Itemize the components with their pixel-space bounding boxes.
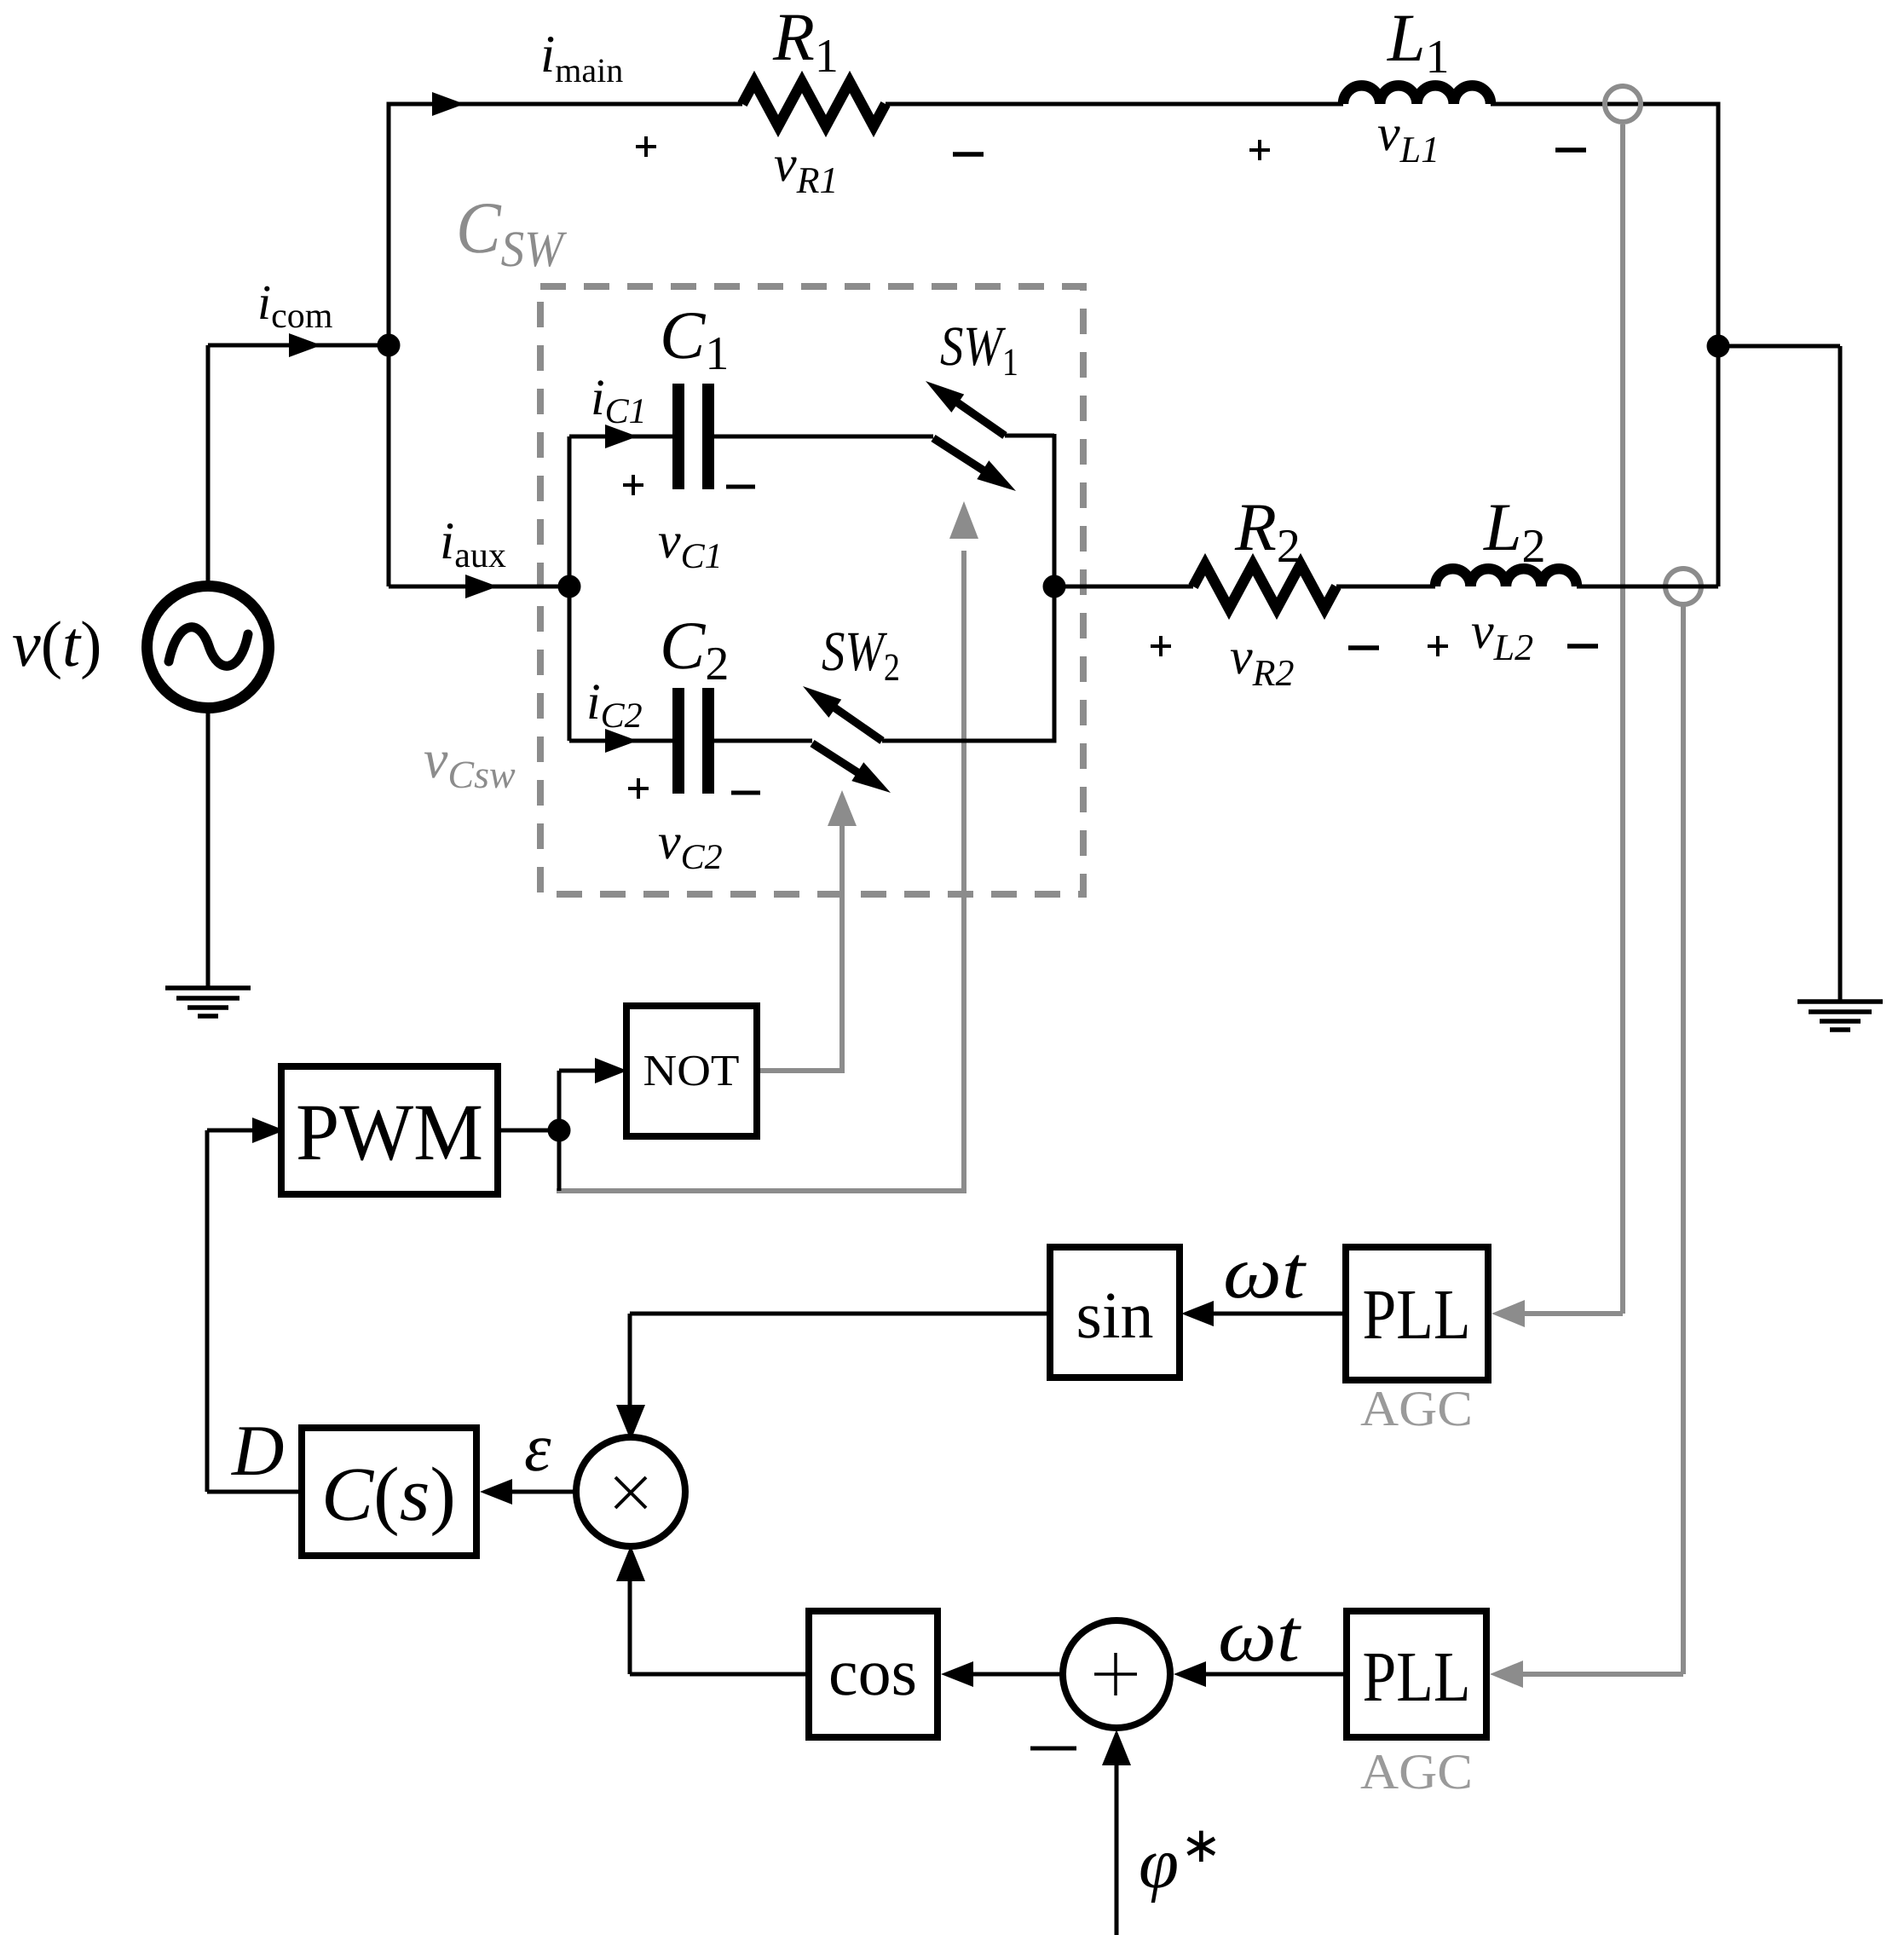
grey arrowhead into PLL1	[1491, 1300, 1525, 1327]
arrow i_main	[432, 92, 464, 116]
inductor L2	[1435, 569, 1577, 586]
arrow into PWM	[207, 1118, 285, 1143]
svg-text:PWM: PWM	[296, 1087, 483, 1177]
svg-text:PLL: PLL	[1363, 1638, 1471, 1717]
arrow PLL1 to sin	[1181, 1301, 1346, 1326]
switch SW1 blade	[933, 438, 1016, 491]
label v_R2	[1230, 628, 1295, 694]
wire top horizontal seg3	[1491, 102, 1718, 107]
wire far right vertical	[1838, 346, 1843, 1002]
arrow into multiplier top	[616, 1405, 645, 1441]
dashed box Csw	[540, 286, 1083, 894]
svg-text:AGC: AGC	[1360, 1380, 1473, 1436]
svg-text:AGC: AGC	[1360, 1743, 1473, 1799]
arrow into NOT	[595, 1058, 627, 1083]
label D	[231, 1411, 284, 1491]
wire source top	[206, 345, 211, 587]
wire SW2 right	[882, 739, 1054, 743]
wire i_com	[208, 344, 390, 348]
label AGC 2	[1360, 1743, 1473, 1799]
label C_SW	[456, 187, 568, 277]
label - C1	[726, 485, 755, 489]
wire C1 right	[714, 435, 933, 439]
label + vL2	[1428, 636, 1448, 656]
svg-text:cos: cos	[828, 1635, 917, 1709]
wire SW1 right	[1005, 434, 1054, 438]
grey arrowhead SW1 control	[949, 501, 978, 539]
label PLL2	[1363, 1638, 1471, 1717]
wire top-left vertical	[387, 102, 391, 587]
label AGC 1	[1360, 1380, 1473, 1436]
label L1	[1387, 1, 1450, 84]
label NOT	[643, 1047, 740, 1095]
label - vR1	[953, 152, 984, 157]
wire top horizontal seg1	[387, 102, 743, 107]
label + C2	[628, 778, 649, 799]
svg-text:ωt: ωt	[1218, 1595, 1302, 1678]
label + vR1	[636, 136, 656, 157]
block cos	[809, 1611, 938, 1737]
grey probe circle vL2	[1665, 569, 1701, 604]
wire C-branch left vertical	[568, 436, 572, 741]
grey probe circle vL1	[1605, 86, 1641, 122]
arrow phi* into summer	[1102, 1730, 1131, 1935]
arrow i_com	[289, 333, 321, 357]
wire cos output	[630, 1575, 809, 1674]
node dot aux right	[1043, 575, 1065, 598]
label - C2	[731, 791, 760, 795]
wire PWM down	[557, 1130, 562, 1191]
block PWM	[281, 1066, 498, 1194]
block C(s)	[302, 1428, 476, 1556]
svg-text:v(t): v(t)	[12, 609, 101, 680]
wire L2 to corner	[1577, 585, 1718, 589]
svg-text:ωt: ωt	[1223, 1232, 1307, 1314]
block PLL1	[1346, 1247, 1488, 1380]
arrow summer to cos	[941, 1661, 1063, 1687]
label + vR2	[1151, 636, 1171, 656]
label L2	[1483, 490, 1546, 573]
wire D vertical	[205, 1130, 210, 1492]
wire top horizontal seg2	[886, 102, 1343, 107]
block PLL2	[1347, 1611, 1486, 1737]
grey arrowhead SW2 control	[828, 790, 857, 826]
node dot right top	[1707, 335, 1729, 357]
switch SW2 contact arrow	[803, 686, 882, 741]
label i_main	[540, 26, 623, 90]
wire C2 right	[714, 739, 812, 743]
arrow i_C1	[605, 425, 638, 448]
label epsilon	[524, 1411, 551, 1486]
wire D horizontal	[207, 1490, 302, 1494]
wire node to R2	[1054, 585, 1193, 589]
capacitor C2	[672, 688, 714, 794]
wire C2 left	[569, 739, 672, 743]
svg-text:sin: sin	[1076, 1278, 1153, 1352]
label - vL2	[1567, 644, 1598, 649]
wire C-branch right vertical	[1053, 434, 1057, 743]
label sin	[1076, 1278, 1153, 1352]
resistor R1	[742, 82, 886, 126]
summer plus	[1094, 1653, 1137, 1695]
wire C1 left	[569, 435, 672, 439]
label v_C1	[658, 512, 723, 576]
label C2	[660, 609, 729, 690]
label C1	[660, 298, 729, 380]
block sin	[1050, 1247, 1180, 1378]
label i_C1	[591, 369, 647, 431]
grey arrowhead into PLL2	[1490, 1661, 1523, 1688]
label R2	[1234, 490, 1301, 573]
wire source bottom	[206, 708, 211, 988]
svg-text:PLL: PLL	[1363, 1275, 1471, 1354]
label - vR2	[1348, 645, 1379, 650]
multiplier circle	[576, 1437, 685, 1546]
label v_C2	[658, 813, 723, 877]
label PWM	[296, 1087, 483, 1177]
node dot aux left	[558, 575, 580, 598]
svg-text:C(s): C(s)	[321, 1453, 456, 1537]
svg-text:ε: ε	[524, 1411, 551, 1486]
arrow i_aux	[465, 575, 498, 598]
wire top-right vertical	[1716, 102, 1721, 587]
label v_R1	[774, 136, 839, 201]
label wt 2	[1218, 1595, 1302, 1678]
svg-text:D: D	[231, 1411, 284, 1491]
node dot PWM output	[548, 1119, 570, 1141]
summer circle	[1063, 1620, 1170, 1728]
svg-text:NOT: NOT	[643, 1047, 740, 1095]
label R1	[772, 0, 839, 83]
wire PWM output	[498, 1129, 559, 1133]
wire grey PWM output to SW1 control	[557, 551, 964, 1193]
label PLL1	[1363, 1275, 1471, 1354]
label minus summer	[1030, 1747, 1076, 1751]
ground left	[165, 988, 251, 1016]
label + C1	[623, 475, 643, 495]
label wt 1	[1223, 1232, 1307, 1314]
label v_L1	[1377, 105, 1440, 170]
wire sin output	[630, 1314, 1050, 1408]
arrow multiplier to C(s)	[480, 1479, 576, 1505]
wire grey probe from vL2 node to PLL2	[1520, 605, 1683, 1674]
voltage source v(t)	[147, 586, 269, 708]
ground right	[1797, 1002, 1883, 1030]
capacitor C1	[672, 384, 714, 489]
resistor R2	[1193, 564, 1336, 609]
wire i_aux	[389, 585, 569, 589]
block NOT	[626, 1006, 757, 1136]
arrow PLL2 to summer	[1174, 1661, 1347, 1687]
switch SW2 blade	[812, 743, 891, 793]
label v_Csw	[424, 729, 516, 796]
label + vL1	[1249, 140, 1270, 160]
label i_com	[257, 274, 333, 336]
label i_aux	[440, 512, 506, 575]
arrow into multiplier bottom	[616, 1545, 645, 1581]
label cos	[828, 1635, 917, 1709]
wire right branch horizontal	[1718, 344, 1840, 349]
multiplier cross	[615, 1477, 646, 1508]
switch SW1 contact arrow	[926, 381, 1005, 436]
label phi*	[1139, 1817, 1222, 1903]
label SW1	[940, 315, 1018, 384]
label - vL1	[1555, 147, 1586, 153]
label SW2	[822, 621, 900, 689]
label v_L2	[1471, 603, 1533, 668]
wire grey probe from vL1 node to PLL1	[1522, 124, 1623, 1314]
wire PWM to NOT	[559, 1071, 595, 1130]
label C(s)	[321, 1453, 456, 1537]
label v(t)	[12, 609, 101, 680]
wire grey NOT output to SW2 control	[757, 823, 842, 1073]
node dot i_com junction	[378, 334, 400, 356]
label i_C2	[586, 673, 643, 736]
inductor L1	[1343, 85, 1491, 104]
wire R2 to L2	[1336, 585, 1435, 589]
arrow i_C2	[605, 729, 638, 753]
